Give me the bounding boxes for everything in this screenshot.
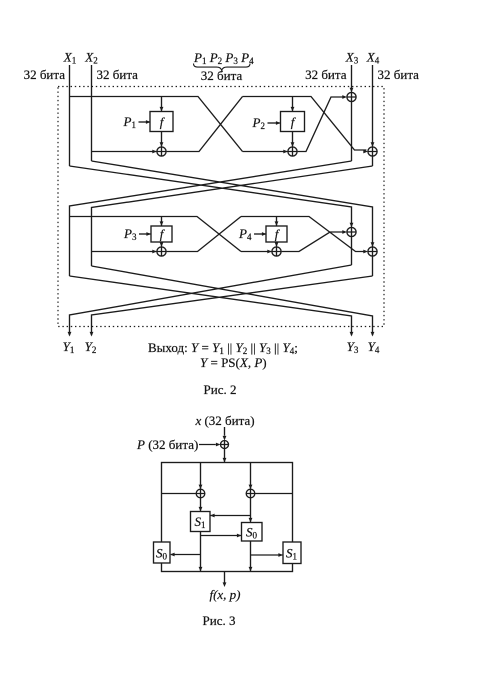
- svg-text:32 бита: 32 бита: [378, 67, 420, 82]
- svg-text:Рис. 2: Рис. 2: [204, 382, 237, 397]
- svg-text:32 бита: 32 бита: [97, 67, 139, 82]
- svg-text:f(x, p): f(x, p): [209, 587, 240, 602]
- svg-text:Y = PS(X, P): Y = PS(X, P): [200, 355, 267, 370]
- svg-text:Выход: Y = Y1 || Y2 || Y3 || Y: Выход: Y = Y1 || Y2 || Y3 || Y4;: [148, 340, 298, 356]
- svg-text:Рис. 3: Рис. 3: [203, 613, 236, 628]
- svg-text:x (32 бита): x (32 бита): [194, 413, 254, 428]
- svg-text:32 бита: 32 бита: [305, 67, 347, 82]
- svg-text:P (32 бита): P (32 бита): [136, 437, 198, 452]
- svg-text:32 бита: 32 бита: [24, 67, 66, 82]
